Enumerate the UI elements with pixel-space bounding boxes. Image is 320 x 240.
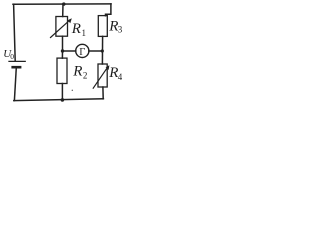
svg-text:R: R <box>71 21 81 37</box>
svg-text:0: 0 <box>10 52 14 61</box>
svg-text:R: R <box>72 64 82 80</box>
svg-text:2: 2 <box>83 70 88 80</box>
svg-text:4: 4 <box>118 72 122 82</box>
svg-text:3: 3 <box>118 25 122 35</box>
svg-text:Γ: Γ <box>79 47 85 58</box>
svg-text:1: 1 <box>82 28 87 38</box>
